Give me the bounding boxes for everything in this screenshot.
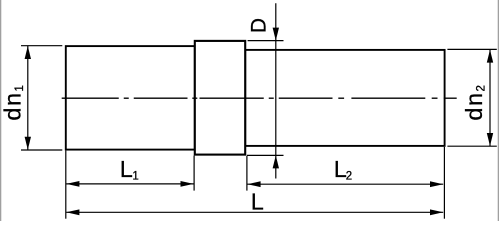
dimension L1: arrow left [66, 181, 79, 187]
extension line: right pipe right edge down [443, 147, 445, 219]
dimension L2: arrow right [430, 181, 443, 187]
svg-text:L: L [120, 156, 133, 182]
left page border [0, 0, 2, 221]
dimension D: extension line top [248, 40, 284, 42]
dimension dn1: extension line top [21, 45, 62, 47]
dimension dn1: arrow down [25, 137, 31, 150]
dimension L: arrow right [430, 209, 443, 215]
left pipe body outline [66, 46, 195, 150]
dimension L2: arrow left [247, 181, 260, 187]
dimension dn2: arrow up [487, 50, 493, 63]
dimension dn2: extension line bottom [447, 145, 496, 147]
svg-text:L: L [251, 189, 264, 215]
dimension D: arrow down (above top edge) [273, 28, 279, 41]
right pipe body outline [245, 50, 444, 146]
dimension L2: dimension line [247, 183, 443, 185]
dimension D: dimension line [275, 3, 277, 178]
dimension dn2: dimension line [489, 50, 491, 146]
label L [251, 189, 264, 215]
label D [247, 18, 270, 33]
dimension L: dimension line [66, 211, 443, 213]
label L1 [120, 156, 139, 182]
dimension L1: dimension line [66, 183, 194, 185]
dimension D: arrow up (below bottom edge) [273, 155, 279, 168]
label dn2 [461, 85, 488, 121]
dimension dn1: arrow up [25, 46, 31, 59]
extension line: collar left edge down [193, 156, 195, 191]
dimension dn2: extension line top [447, 48, 496, 50]
svg-text:2: 2 [346, 170, 352, 182]
dimension L1: arrow right [181, 181, 194, 187]
svg-text:D: D [247, 18, 270, 33]
centerline (dash-dot axis) [62, 97, 457, 99]
dimension D: extension line bottom [247, 154, 284, 156]
extension line: collar right edge down [246, 156, 248, 191]
label dn1 [0, 85, 26, 121]
svg-text:1: 1 [132, 170, 138, 182]
right page border [497, 0, 499, 221]
label L2 [334, 156, 352, 183]
extension line: left pipe left edge down [65, 151, 67, 219]
dimension dn2: arrow down [487, 133, 493, 146]
dimension dn1: dimension line [27, 46, 29, 150]
dimension L: arrow left [66, 209, 79, 215]
dimension dn1: extension line bottom [21, 149, 62, 151]
center collar outline [195, 41, 245, 155]
